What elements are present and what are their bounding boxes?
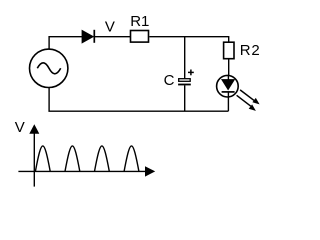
capacitor plus sign xyxy=(188,70,194,76)
waveform y-axis xyxy=(29,124,39,186)
wire: R2 to LED xyxy=(228,59,230,75)
AC source G1 xyxy=(30,49,68,87)
LED D1 xyxy=(217,75,239,97)
svg-text:R1: R1 xyxy=(130,13,149,30)
svg-text:R2: R2 xyxy=(240,42,261,59)
diode V xyxy=(82,30,94,43)
LED arrow 1 xyxy=(240,90,260,105)
LED arrow 2 xyxy=(237,95,256,111)
svg-text:V: V xyxy=(105,18,115,35)
resistor R2 xyxy=(224,42,234,59)
waveform x-axis xyxy=(18,166,155,176)
wire: capacitor branch top xyxy=(184,37,186,79)
wire: R1 to top-right corner and down to R2 xyxy=(149,37,228,42)
svg-text:C: C xyxy=(164,72,175,89)
wire: diode to R1 xyxy=(94,36,130,38)
wire: LED to bottom rail xyxy=(227,92,229,111)
wire: source top to diode anode xyxy=(49,37,82,50)
capacitor C xyxy=(178,79,191,86)
resistor R1 xyxy=(131,31,149,43)
waveform half-sine humps xyxy=(35,146,138,171)
svg-text:V: V xyxy=(15,119,25,136)
bottom rail wire xyxy=(49,88,228,112)
wire: capacitor branch bottom xyxy=(184,85,186,111)
